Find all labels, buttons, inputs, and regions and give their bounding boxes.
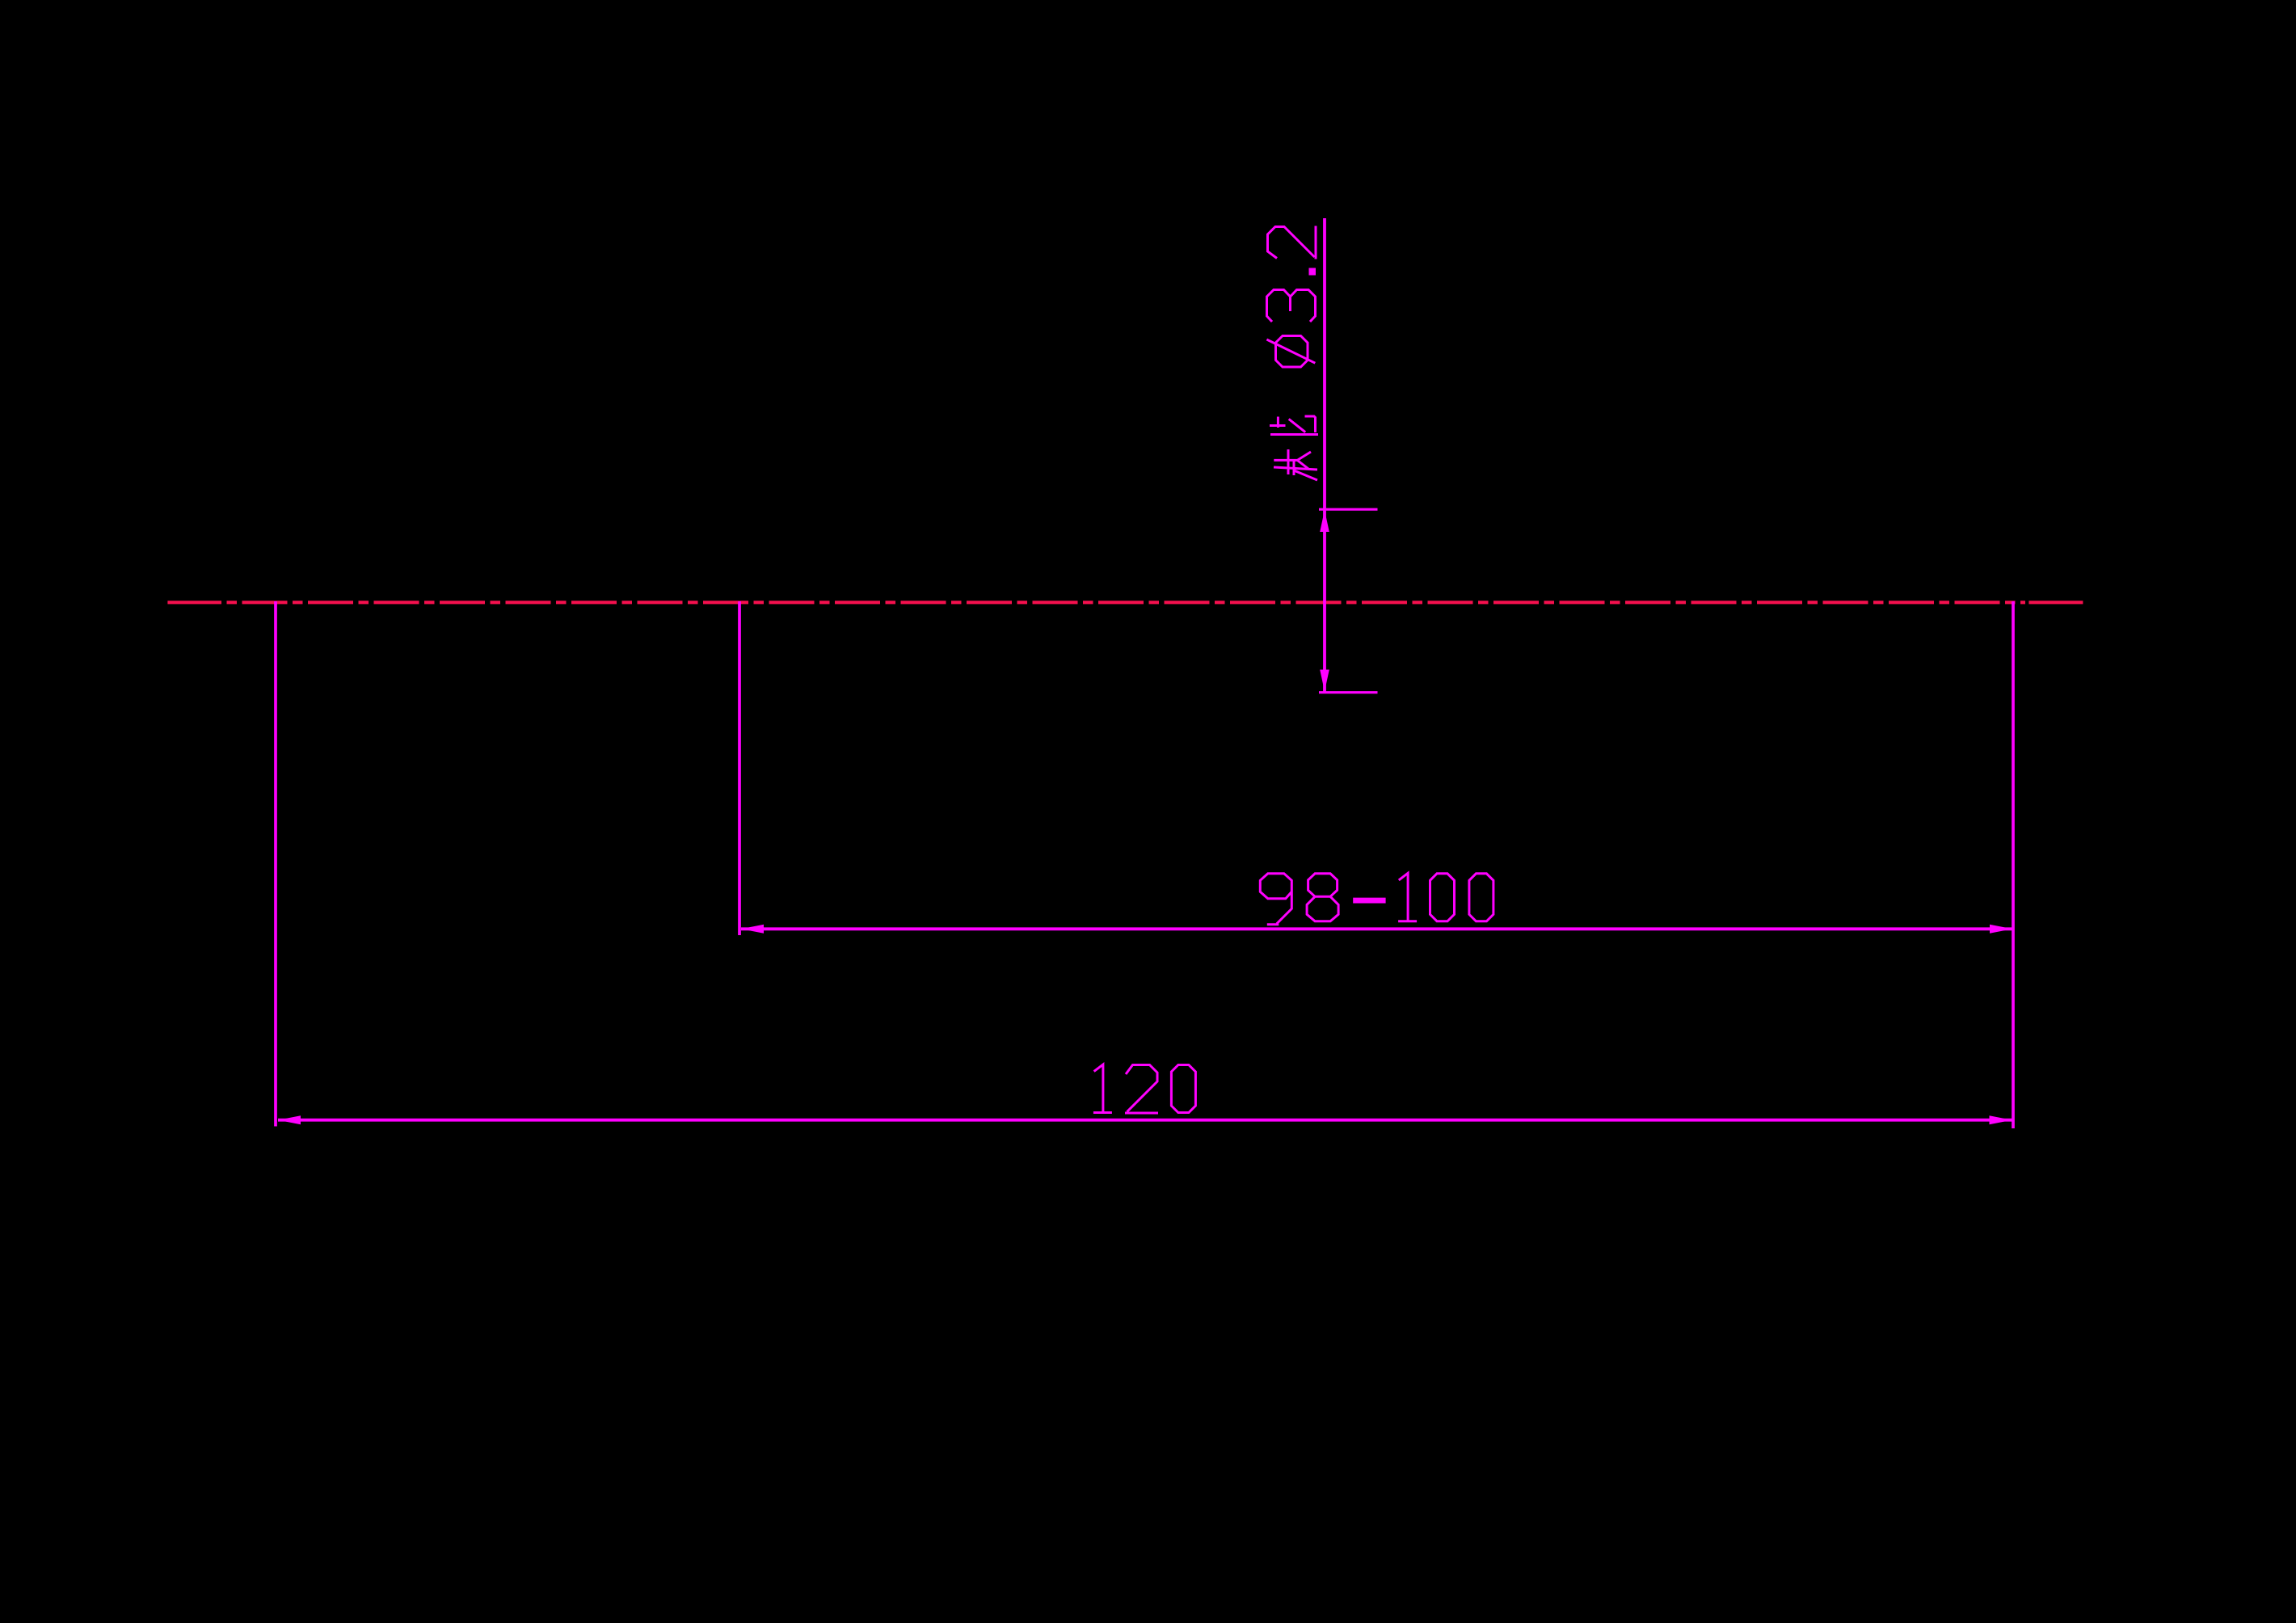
arrowhead 98-100 right <box>1990 925 2012 934</box>
digit 0 <box>1171 1065 1195 1113</box>
digit 1 <box>1093 1064 1112 1113</box>
hanzi HUA (flower) <box>1270 416 1318 435</box>
tick lower (diameter dim) <box>1319 691 1378 693</box>
digit 9 <box>1260 874 1291 925</box>
extension line middle (98-100 dim, x=915) <box>738 601 741 935</box>
diameter symbol <box>1266 336 1315 368</box>
digit 1 <box>1398 873 1417 921</box>
vertical dimension leader line (diameter dim, x=1639) <box>1323 218 1326 693</box>
dimension text 98-100 <box>1260 873 1493 925</box>
digit 0 <box>1430 874 1455 921</box>
digit 2 <box>1125 1065 1158 1114</box>
hanzi MA (twist) <box>1274 449 1317 480</box>
dimension line 120 <box>278 1119 2012 1122</box>
arrowhead up (diameter dim) <box>1320 510 1329 532</box>
extension line right (shared, x=2491) <box>2012 601 2015 1128</box>
hyphen <box>1353 898 1385 904</box>
dimension line 98-100 <box>741 927 2012 930</box>
digit 0 <box>1469 874 1493 921</box>
decimal point <box>1309 268 1317 276</box>
arrowhead down (diameter dim) <box>1320 670 1329 692</box>
extension line left (120 dim, x=341) <box>274 601 277 1127</box>
digit 8 <box>1307 874 1338 921</box>
tick upper (diameter dim) <box>1319 508 1378 511</box>
dimension text 120 <box>1093 1064 1196 1113</box>
digit 2 <box>1268 226 1317 259</box>
digit 3 <box>1267 290 1316 322</box>
rotated dimension label (hanzi + diameter 3.2), reads bottom-to-top <box>1266 226 1318 481</box>
arrowhead 98-100 left <box>741 925 764 934</box>
arrowhead 120 left <box>278 1115 301 1124</box>
arrowhead 120 right <box>1990 1115 2012 1124</box>
centerline (red dash-dot axis) <box>167 601 2083 604</box>
